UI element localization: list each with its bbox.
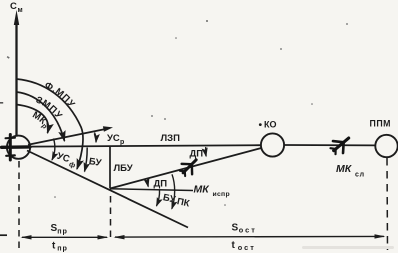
- origin circle (departure point): [7, 136, 30, 159]
- north axis С_м: [14, 10, 19, 136]
- dashed vertical at origin: [18, 161, 20, 251]
- label t_ост: [232, 240, 256, 252]
- dashed vertical at ППМ: [386, 158, 389, 250]
- label S_ост: [232, 223, 257, 235]
- label МК_испр: [194, 184, 230, 199]
- arc МКр: [17, 105, 49, 134]
- arc ДП at V: [147, 178, 150, 187]
- dashed vertical at V: [110, 196, 112, 241]
- heading arrow УС_р: [28, 126, 113, 145]
- dimension S_ост / t_ост: [114, 234, 386, 239]
- svg-text:БУ: БУ: [88, 156, 102, 169]
- arc ЗМПУ: [17, 92, 65, 141]
- svg-text:ДП: ДП: [190, 148, 204, 159]
- scan noise specks: [7, 20, 348, 206]
- arc БУ at V: [157, 190, 160, 206]
- svg-text:ост: ост: [239, 225, 257, 234]
- left margin tick: [0, 234, 7, 236]
- svg-text:КО: КО: [264, 120, 277, 130]
- arc ПК: [172, 174, 175, 209]
- airplane МК_испр: [177, 155, 201, 179]
- arc БУ below ЛЗП: [85, 148, 88, 172]
- label S_пр: [51, 223, 68, 235]
- label УС_ф: [55, 151, 78, 170]
- svg-text:МК: МК: [336, 163, 353, 175]
- svg-text:МК: МК: [194, 184, 211, 196]
- svg-text:пр: пр: [57, 226, 68, 235]
- label КО: [259, 120, 277, 130]
- label С_м: [10, 1, 23, 14]
- wire КО to ППМ: [284, 144, 375, 146]
- svg-text:ППМ: ППМ: [370, 119, 391, 129]
- svg-text:ДП: ДП: [154, 179, 168, 190]
- label УС_р: [107, 133, 124, 146]
- svg-text:пр: пр: [57, 243, 68, 252]
- dimension S_пр / t_пр: [21, 235, 109, 239]
- svg-text:ЛБУ: ЛБУ: [114, 163, 133, 174]
- faint scan smudge: [302, 246, 394, 249]
- horizontal reference at V: [110, 189, 193, 191]
- airplane at origin: [2, 135, 31, 161]
- correction line V to КО (МК_испр): [110, 148, 261, 189]
- svg-text:м: м: [18, 7, 23, 14]
- svg-text:ост: ост: [238, 243, 256, 252]
- КО circle (checkpoint): [261, 133, 284, 156]
- svg-text:УС: УС: [107, 133, 120, 144]
- svg-text:ЛЗП: ЛЗП: [161, 133, 181, 144]
- svg-text:р: р: [120, 139, 124, 146]
- airplane МК_сл: [328, 132, 354, 157]
- wire ЛЗП origin to КО: [30, 145, 262, 146]
- svg-text:испр: испр: [213, 191, 230, 198]
- УС_р angle arrow: [95, 133, 97, 143]
- line ЛБУ: [109, 147, 111, 189]
- arc ФМПУ: [17, 79, 83, 169]
- label МК_сл: [336, 163, 365, 179]
- ППМ circle (turn point): [375, 135, 397, 157]
- arc УС_ф: [52, 139, 55, 161]
- actual track line (to ПК direction): [27, 151, 188, 228]
- svg-text:сл: сл: [355, 172, 365, 179]
- left margin mark mid: [0, 102, 3, 104]
- svg-text:С: С: [10, 1, 17, 12]
- arc ДП at КО: [205, 147, 208, 156]
- label t_пр: [52, 241, 68, 253]
- svg-text:S: S: [232, 223, 239, 234]
